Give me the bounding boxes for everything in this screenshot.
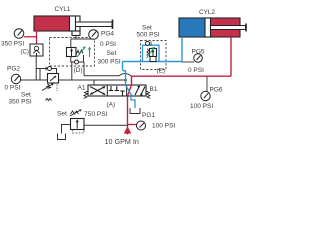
wire A1 port: [93, 80, 95, 85]
wire blue CYL2 cap port: [181, 37, 183, 62]
svg-text:0 PSI: 0 PSI: [100, 41, 116, 48]
svg-text:PG1: PG1: [142, 112, 155, 119]
svg-text:300 PSI: 300 PSI: [98, 59, 121, 66]
green adjust arrow of valve D: [77, 47, 86, 58]
wire red B1 port: [131, 76, 133, 85]
wire blue through valve: [126, 85, 133, 96]
directional valve A body: [88, 85, 146, 96]
wire branch to B bypass loop: [36, 68, 40, 70]
svg-text:0 PSI: 0 PSI: [188, 67, 204, 74]
green adjust arrow of valve E: [147, 47, 155, 58]
valve A left cell crossed arrows: [90, 86, 106, 95]
gauge PG2: [5, 66, 21, 92]
green pilot arrow of valve D: [88, 47, 91, 58]
cylinder CYL1 barrel: [34, 16, 80, 31]
wire valve D down to A-line: [71, 62, 73, 80]
label Set 350 PSI for valve B: [9, 92, 32, 106]
valve E bypass loop blue: [143, 45, 160, 61]
cylinder CYL1 piston: [70, 16, 76, 31]
wire CYL1 rod port down: [75, 36, 77, 40]
cylinder CYL2 rod: [211, 24, 247, 32]
adjust arrow of valve B: [42, 84, 54, 91]
valve E body: [150, 49, 157, 57]
svg-text:Set: Set: [21, 92, 31, 99]
wire main A-line horizontal: [21, 79, 126, 81]
valve E drain box: [150, 57, 156, 62]
check valve on E loop: [146, 41, 152, 45]
counterbalance valve B bypass loop: [40, 67, 57, 81]
svg-text:CYL2: CYL2: [199, 9, 215, 16]
svg-text:500 PSI: 500 PSI: [137, 32, 160, 39]
gauge 350 PSI: [14, 29, 24, 39]
wire blue horizontal to CYL2: [123, 61, 183, 63]
valve A right cell straight arrows: [135, 86, 145, 97]
wire down into valve D: [70, 39, 72, 48]
cylinder CYL2 piston: [205, 18, 211, 37]
valve D body: [67, 48, 77, 57]
svg-text:750 PSI: 750 PSI: [84, 111, 108, 118]
svg-text:100 PSI: 100 PSI: [152, 123, 175, 130]
tank symbol at relief: [58, 134, 66, 140]
svg-text:350 PSI: 350 PSI: [9, 99, 32, 106]
pump inlet arrow: [124, 126, 132, 133]
svg-text:(E): (E): [157, 68, 166, 75]
pressure reducing valve E dashed enclosure: [141, 41, 167, 70]
svg-text:(C): (C): [21, 50, 29, 56]
wire relief to tank: [62, 125, 71, 134]
relief valve body: [71, 119, 85, 130]
svg-text:Set: Set: [107, 50, 117, 57]
cylinder CYL1 rod: [76, 20, 113, 30]
svg-text:PG4: PG4: [101, 31, 114, 38]
wire horizontal to PG4: [71, 38, 92, 40]
wire red gauge stub to cap line: [24, 36, 37, 38]
pressure reducing valve D dashed enclosure: [50, 38, 95, 67]
svg-text:(A): (A): [107, 102, 116, 109]
svg-text:Set: Set: [57, 111, 67, 118]
spring of valve B: [46, 84, 58, 101]
tank symbol under valve A: [130, 108, 140, 114]
wire main blue line: [123, 62, 126, 86]
wire from C down to main A-line: [35, 56, 37, 81]
svg-text:10 GPM In: 10 GPM In: [105, 137, 139, 146]
check valve C box: [30, 44, 43, 56]
gauge PG6: [201, 76, 210, 101]
wire hop over blue line: [84, 75, 119, 77]
wire red pump supply: [127, 96, 129, 135]
wire relief to pump line: [84, 124, 128, 126]
svg-text:100 PSI: 100 PSI: [190, 103, 213, 110]
gauge PG5: [182, 49, 205, 75]
svg-text:B1: B1: [150, 86, 158, 93]
svg-text:(D): (D): [74, 67, 83, 74]
cylinder CYL2 barrel: [179, 18, 240, 37]
cylinder CYL1 rod port fitting: [72, 31, 80, 36]
wire blue tank staircase: [131, 96, 135, 108]
wire red through valve: [128, 85, 132, 96]
counterbalance valve B body: [48, 74, 59, 84]
valve A right spring: [146, 91, 151, 99]
svg-text:CYL1: CYL1: [55, 6, 71, 13]
svg-text:A1: A1: [78, 85, 86, 92]
relief valve pilot dashes: [73, 130, 85, 134]
wire red main line to CYL2: [132, 75, 232, 77]
gauge PG1: [128, 121, 146, 130]
wire red CYL1 cap line: [36, 31, 38, 45]
svg-text:350 PSI: 350 PSI: [1, 41, 24, 48]
svg-text:PG6: PG6: [210, 87, 223, 94]
valve A left spring: [84, 91, 89, 99]
relief valve spring and arrow: [70, 110, 82, 117]
svg-text:Set: Set: [142, 25, 152, 32]
svg-text:PG2: PG2: [7, 66, 20, 73]
svg-text:0 PSI: 0 PSI: [5, 85, 21, 92]
wire red CYL2 rod port: [230, 37, 232, 76]
spring of valve D: [76, 50, 83, 55]
gauge PG4: [89, 30, 99, 40]
valve A centre cell blocked: [109, 86, 125, 96]
spring of valve E: [147, 49, 149, 56]
bypass check loop of valve D: [71, 55, 84, 76]
